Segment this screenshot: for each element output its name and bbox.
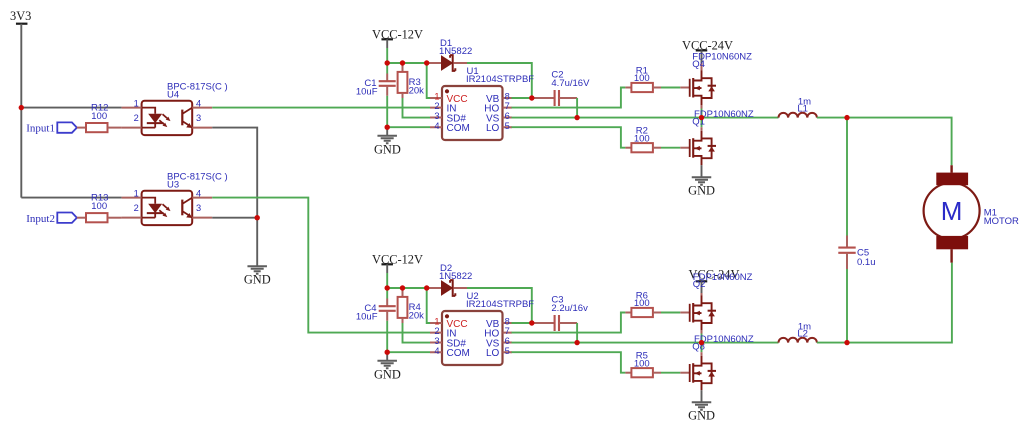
svg-text:5: 5 bbox=[505, 346, 510, 356]
ground symbol GND (channel 2) bbox=[377, 361, 397, 369]
resistor R4 20k bbox=[402, 288, 404, 297]
low-side gate pin stub bbox=[680, 147, 690, 149]
svg-text:GND: GND bbox=[244, 273, 271, 287]
svg-text:L2: L2 bbox=[797, 328, 808, 339]
junction snubber cap column bbox=[844, 340, 849, 345]
junction bootstrap cap / VS bbox=[574, 340, 579, 345]
wire U3 pin4 to U2 IN (long route) bbox=[212, 198, 430, 333]
svg-text:U3: U3 bbox=[167, 180, 179, 191]
wire C4 to COM/GND junction bbox=[386, 321, 388, 352]
wire U4 pin4 to U1 IN bbox=[212, 107, 430, 109]
svg-text:4: 4 bbox=[434, 121, 439, 131]
svg-text:20k: 20k bbox=[409, 86, 425, 97]
wire L1 to motor column bbox=[817, 117, 847, 119]
svg-text:100: 100 bbox=[91, 201, 107, 212]
svg-text:3: 3 bbox=[196, 203, 201, 213]
junction rail / filter cap bbox=[385, 60, 390, 65]
svg-text:MOTOR: MOTOR bbox=[984, 216, 1019, 227]
diode D2 1N5822 (schottky) bbox=[429, 287, 442, 289]
low-side gate pin stub bbox=[680, 372, 690, 374]
wire VS row bbox=[512, 117, 779, 119]
junction U3 pin3 / GND bbox=[255, 215, 260, 220]
wire HO to gate resistor bbox=[512, 88, 626, 108]
svg-text:Input2: Input2 bbox=[26, 213, 55, 225]
svg-text:VCC-24V: VCC-24V bbox=[682, 38, 733, 52]
wire R12 to U4 pin2 bbox=[108, 127, 122, 129]
wire HO to gate resistor bbox=[512, 313, 626, 333]
svg-text:100: 100 bbox=[634, 359, 650, 370]
wire VCC rail (channel 2) bbox=[387, 287, 429, 289]
svg-text:Input1: Input1 bbox=[26, 123, 55, 135]
resistor R3 20k bbox=[402, 63, 404, 72]
junction bootstrap cap / VS bbox=[574, 115, 579, 120]
wire junction down to ground bbox=[256, 218, 258, 267]
svg-text:1N5822: 1N5822 bbox=[439, 271, 472, 282]
junction rail / diode-VCC branch bbox=[424, 285, 429, 290]
svg-text:4: 4 bbox=[196, 99, 201, 109]
svg-text:4.7u/16V: 4.7u/16V bbox=[551, 78, 590, 89]
inductor L1 1m bbox=[779, 113, 817, 118]
resistor R6 100 bbox=[625, 312, 631, 314]
wire COM row bbox=[387, 126, 430, 128]
svg-text:COM: COM bbox=[447, 123, 470, 134]
wire half-bridge vertical (source of high-side to drain of low-side) bbox=[701, 330, 703, 334]
wire rail branch down to VCC pin bbox=[427, 63, 430, 98]
svg-text:3: 3 bbox=[434, 111, 439, 121]
resistor R2 100 bbox=[625, 147, 631, 149]
svg-text:7: 7 bbox=[505, 101, 510, 111]
wire R2 to low-side gate bbox=[661, 147, 680, 149]
svg-text:5: 5 bbox=[505, 121, 510, 131]
svg-text:100: 100 bbox=[634, 134, 650, 145]
svg-text:8: 8 bbox=[505, 92, 510, 102]
junction VB / bootstrap cap bbox=[529, 320, 534, 325]
capacitor C1 10uF bbox=[386, 63, 388, 74]
net 3V3 power flag bbox=[16, 23, 28, 25]
wire VS2 to motor bottom bbox=[847, 263, 952, 343]
power flag VCC-24V bbox=[696, 49, 708, 51]
svg-text:1: 1 bbox=[134, 99, 139, 109]
wire R4 to SD# bbox=[403, 323, 431, 343]
svg-text:10uF: 10uF bbox=[356, 312, 378, 323]
wire VB to bootstrap junction bbox=[512, 97, 532, 99]
wire VCC-12V stub bbox=[386, 39, 388, 48]
capacitor C4 10uF bbox=[386, 288, 388, 299]
junction COM / GND bbox=[385, 350, 390, 355]
wire VS1 to motor top bbox=[847, 118, 952, 166]
svg-text:GND: GND bbox=[688, 183, 715, 197]
wire R6 to high-side gate bbox=[661, 312, 680, 314]
gate driver U1 IR2104STRPBF bbox=[442, 86, 503, 140]
capacitor C3 2.2u/16v bbox=[532, 322, 555, 324]
ground symbol (half-bridge) bbox=[692, 177, 712, 185]
svg-text:3: 3 bbox=[196, 113, 201, 123]
junction VB / bootstrap cap bbox=[529, 95, 534, 100]
svg-text:8: 8 bbox=[505, 317, 510, 327]
resistor R13 bbox=[86, 213, 108, 222]
ground symbol (opto emitters) bbox=[247, 266, 267, 274]
wire low-side source to ground bbox=[701, 390, 703, 402]
wire low-side source to ground bbox=[701, 165, 703, 177]
junction VS / half-bridge midpoint bbox=[699, 115, 704, 120]
svg-text:3V3: 3V3 bbox=[10, 9, 31, 23]
wire LO to gate resistor bbox=[512, 352, 626, 373]
svg-text:VCC-12V: VCC-12V bbox=[372, 28, 423, 42]
svg-text:COM: COM bbox=[447, 348, 470, 359]
wire Input1 to R12 bbox=[77, 127, 86, 129]
wire R3 to SD# bbox=[403, 98, 431, 118]
power flag VCC-24V (channel 2) bbox=[696, 280, 708, 282]
svg-text:100: 100 bbox=[634, 298, 650, 309]
svg-text:20k: 20k bbox=[409, 311, 425, 322]
resistor R5 100 bbox=[625, 372, 631, 374]
optocoupler U3 BPC-817S(C) bbox=[142, 191, 193, 225]
svg-text:U4: U4 bbox=[167, 89, 179, 100]
svg-text:IR2104STRPBF: IR2104STRPBF bbox=[466, 299, 534, 310]
high-side gate pin stub bbox=[680, 312, 690, 314]
wire LO to gate resistor bbox=[512, 127, 626, 148]
wire R13 to U3 pin2 bbox=[108, 217, 122, 219]
junction snubber cap column bbox=[844, 115, 849, 120]
diode D1 1N5822 (schottky) bbox=[429, 62, 442, 64]
high-side gate pin stub bbox=[680, 87, 690, 89]
wire U3 pin3 to GND junction bbox=[212, 217, 257, 219]
wire C3 down to VS bbox=[576, 323, 578, 343]
inductor L2 1m bbox=[779, 338, 817, 343]
svg-text:1N5822: 1N5822 bbox=[439, 46, 472, 57]
wire Input2 to R13 bbox=[77, 217, 86, 219]
wire D2 cathode to VB junction bbox=[467, 288, 532, 323]
transistor Q2 FDP10N60NZ (high side) bbox=[690, 296, 716, 331]
svg-text:2.2u/16v: 2.2u/16v bbox=[551, 303, 588, 314]
svg-text:IR2104STRPBF: IR2104STRPBF bbox=[466, 74, 534, 85]
svg-text:10uF: 10uF bbox=[356, 87, 378, 98]
svg-text:1: 1 bbox=[434, 92, 439, 102]
junction VS / half-bridge midpoint bbox=[699, 340, 704, 345]
wire R1 to high-side gate bbox=[661, 87, 680, 89]
motor M1 bbox=[950, 165, 952, 262]
wire C1 to COM/GND junction bbox=[386, 96, 388, 127]
svg-text:LO: LO bbox=[486, 123, 500, 134]
wire U4 pin3 to GND vertical bbox=[212, 128, 257, 218]
optocoupler U4 BPC-817S(C) bbox=[142, 101, 193, 135]
port Input2 bbox=[57, 213, 77, 223]
svg-text:2: 2 bbox=[434, 326, 439, 336]
junction 3V3 rail / U4 branch bbox=[19, 105, 24, 110]
gate driver U2 IR2104STRPBF bbox=[442, 311, 503, 365]
svg-text:GND: GND bbox=[374, 142, 401, 156]
wire 3V3 vertical rail bbox=[20, 24, 22, 198]
wire R5 to low-side gate bbox=[661, 372, 680, 374]
svg-text:1: 1 bbox=[434, 317, 439, 327]
wire L2 to motor column bbox=[817, 342, 847, 344]
svg-text:100: 100 bbox=[91, 111, 107, 122]
power flag VCC-12V (channel 2) bbox=[381, 263, 393, 265]
ground symbol (half-bridge (channel 2)) bbox=[692, 402, 712, 410]
svg-text:2: 2 bbox=[134, 203, 139, 213]
svg-text:4: 4 bbox=[434, 346, 439, 356]
svg-text:GND: GND bbox=[688, 408, 715, 422]
wire 3V3 to U3 pin1 bbox=[21, 197, 121, 199]
junction rail / diode-VCC branch bbox=[424, 60, 429, 65]
capacitor C2 4.7u/16V bbox=[532, 97, 555, 99]
svg-text:2: 2 bbox=[134, 113, 139, 123]
junction rail / filter cap bbox=[385, 285, 390, 290]
svg-text:GND: GND bbox=[374, 367, 401, 381]
junction rail / R divider bbox=[400, 285, 405, 290]
wire COM row bbox=[387, 351, 430, 353]
resistor R12 bbox=[86, 123, 108, 132]
svg-text:M: M bbox=[941, 196, 963, 226]
svg-text:3: 3 bbox=[434, 336, 439, 346]
ground symbol GND bbox=[377, 136, 397, 144]
wire C2 down to VS bbox=[576, 98, 578, 118]
transistor Q8 FDP10N60NZ (low side) bbox=[690, 356, 716, 391]
transistor Q4 FDP10N60NZ (high side) bbox=[690, 71, 716, 106]
svg-text:VCC-12V: VCC-12V bbox=[372, 253, 423, 267]
transistor Q1 FDP10N60NZ (low side) bbox=[690, 131, 716, 166]
wire D1 cathode to VB junction bbox=[467, 63, 532, 98]
wire VS row (channel 2) bbox=[512, 342, 779, 344]
port Input1 bbox=[57, 122, 77, 132]
resistor R1 100 bbox=[625, 87, 631, 89]
svg-text:4: 4 bbox=[196, 189, 201, 199]
svg-text:1: 1 bbox=[134, 189, 139, 199]
wire half-bridge vertical (source of high-side to drain of low-side) bbox=[701, 105, 703, 109]
wire VCC rail bbox=[387, 62, 429, 64]
junction COM / GND bbox=[385, 125, 390, 130]
svg-text:6: 6 bbox=[505, 336, 510, 346]
svg-text:2: 2 bbox=[434, 101, 439, 111]
svg-text:0.1u: 0.1u bbox=[857, 257, 876, 268]
wire rail branch down to VCC pin bbox=[427, 288, 430, 323]
power flag VCC-12V bbox=[381, 38, 393, 40]
svg-text:L1: L1 bbox=[797, 103, 808, 114]
wire junction to ground stub bbox=[386, 127, 388, 136]
svg-text:6: 6 bbox=[505, 111, 510, 121]
wire VCC-12V stub bbox=[386, 264, 388, 273]
svg-text:Q2: Q2 bbox=[693, 279, 706, 290]
wire junction to ground stub bbox=[386, 352, 388, 361]
svg-text:100: 100 bbox=[634, 73, 650, 84]
svg-text:Q4: Q4 bbox=[692, 59, 705, 70]
capacitor C5 0.1u (across motor) bbox=[846, 118, 848, 236]
wire 3V3 to U4 pin1 bbox=[21, 107, 121, 109]
wire VB to bootstrap junction bbox=[512, 322, 532, 324]
svg-text:LO: LO bbox=[486, 348, 500, 359]
svg-text:7: 7 bbox=[505, 326, 510, 336]
junction rail / R divider bbox=[400, 60, 405, 65]
